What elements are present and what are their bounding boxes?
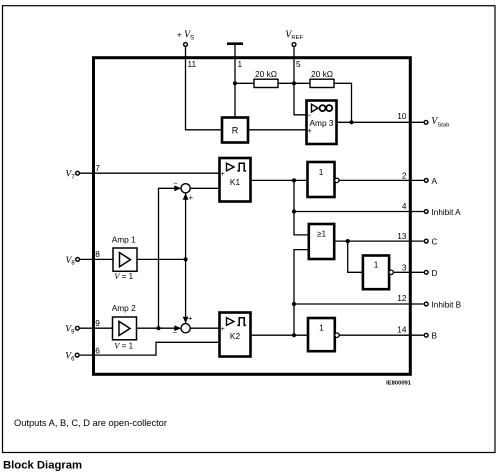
wire +Vs pin 11 to R left bbox=[186, 47, 223, 130]
svg-text:V8: V8 bbox=[66, 256, 76, 267]
terminal D bbox=[424, 270, 428, 274]
wire node C down to gate D input bbox=[348, 241, 363, 272]
junction node Vstab feedback bbox=[349, 120, 353, 124]
Amp 3 header triangle bbox=[312, 104, 319, 112]
junction node C bbox=[346, 239, 350, 243]
wire Vref pin 5 down to Amp3 minus input bbox=[294, 47, 307, 115]
inverter gate D box bbox=[363, 256, 389, 290]
summing node circle 2 bbox=[181, 324, 190, 333]
svg-text:VREF: VREF bbox=[285, 29, 303, 41]
wire R1 to R2 through node 5 bbox=[278, 82, 310, 84]
svg-text:1: 1 bbox=[238, 59, 243, 69]
wire V6 pin 6 to K2 lower input bbox=[80, 342, 220, 355]
wire K1 output bbox=[251, 179, 308, 181]
arrow into summing 2 top bbox=[183, 317, 189, 324]
wire pin 1 down to R top bbox=[234, 44, 236, 118]
svg-text:R: R bbox=[232, 125, 239, 135]
svg-text:9: 9 bbox=[95, 318, 100, 328]
wire V7 pin 7 to K1 input bbox=[80, 172, 220, 174]
svg-text:V = 1: V = 1 bbox=[114, 271, 133, 281]
svg-text:+: + bbox=[189, 193, 194, 202]
wire gate D output to pin 3 bbox=[393, 271, 423, 273]
svg-text:A: A bbox=[432, 177, 438, 186]
svg-text:V6: V6 bbox=[65, 352, 75, 363]
svg-text:11: 11 bbox=[188, 59, 197, 69]
wire inhibit B to pin 12 bbox=[294, 303, 424, 305]
svg-text:+: + bbox=[221, 326, 225, 333]
junction node pin5 bbox=[292, 81, 296, 85]
terminal B bbox=[424, 333, 428, 337]
wire V8 pin 8 to Amp1 input bbox=[80, 258, 113, 260]
junction node inhibit A bbox=[292, 209, 296, 213]
svg-text:D: D bbox=[432, 269, 438, 278]
svg-text:2: 2 bbox=[402, 171, 407, 181]
svg-text:−: − bbox=[173, 328, 178, 337]
summing node circle 1 bbox=[181, 184, 190, 193]
svg-text:1: 1 bbox=[319, 323, 324, 333]
OR gate box bbox=[309, 224, 334, 259]
terminal V9 bbox=[76, 326, 80, 330]
Amp 3 header infinity bbox=[320, 105, 326, 111]
svg-text:4: 4 bbox=[402, 201, 407, 211]
K1 header pulse symbol bbox=[237, 163, 246, 171]
svg-text:20 kΩ: 20 kΩ bbox=[311, 69, 333, 79]
wire summing node 1 left feedback from Amp2 bbox=[159, 188, 181, 328]
svg-text:12: 12 bbox=[397, 293, 407, 303]
IC block outline bbox=[94, 58, 411, 375]
svg-text:8: 8 bbox=[95, 249, 100, 259]
inverter gate A box bbox=[308, 162, 335, 197]
wire gate B output to pin 14 bbox=[339, 334, 424, 336]
svg-text:Inhibit A: Inhibit A bbox=[432, 208, 462, 217]
junction node K1 output bbox=[292, 178, 296, 182]
wire Amp2 output to summing node 2 bbox=[137, 327, 181, 329]
inverter bubble gate D bbox=[389, 270, 393, 274]
buffer amplifier Amp 2 box bbox=[113, 317, 137, 340]
terminal A bbox=[424, 179, 428, 183]
buffer amplifier Amp 1 box bbox=[113, 248, 137, 271]
wire K1 node down to OR gate top input bbox=[294, 180, 309, 235]
wire K2 output bbox=[251, 334, 309, 336]
comparator K1 box bbox=[220, 158, 251, 202]
resistor R1 20k bbox=[254, 79, 278, 87]
wire V9 pin 9 to Amp2 input bbox=[80, 327, 113, 329]
wire OR output to pin 13 bbox=[334, 240, 424, 242]
wire summing node 2 to K2 input bbox=[190, 327, 219, 329]
svg-text:Outputs A, B, C, D are open-co: Outputs A, B, C, D are open-collector bbox=[14, 418, 167, 428]
svg-text:+: + bbox=[221, 171, 225, 178]
inverter gate B box bbox=[308, 318, 335, 351]
resistor R2 20k bbox=[310, 79, 334, 87]
K1 header triangle bbox=[227, 163, 235, 171]
svg-text:IE800091: IE800091 bbox=[386, 381, 412, 387]
svg-text:+: + bbox=[188, 314, 193, 323]
wire Amp1 node vertical to both summing nodes bbox=[185, 194, 187, 323]
svg-text:10: 10 bbox=[397, 111, 407, 121]
terminal inhibit B bbox=[424, 302, 428, 306]
svg-text:5: 5 bbox=[296, 59, 301, 69]
junction node K2 output bbox=[292, 333, 296, 337]
svg-text:V9: V9 bbox=[65, 325, 75, 336]
svg-text:≥1: ≥1 bbox=[317, 228, 327, 238]
svg-text:−: − bbox=[307, 110, 312, 119]
svg-text:K1: K1 bbox=[230, 177, 241, 187]
svg-text:1: 1 bbox=[319, 167, 324, 177]
wire inhibit A to pin 4 bbox=[294, 211, 424, 213]
terminal +Vs bbox=[184, 43, 188, 47]
junction node Amp2 output bbox=[156, 326, 160, 330]
wire K2 node up to OR gate bottom input bbox=[294, 250, 309, 336]
K2 header triangle bbox=[227, 318, 235, 326]
Amp 2 triangle bbox=[119, 321, 130, 335]
junction node inhibit B bbox=[292, 302, 296, 306]
K2 header pulse symbol bbox=[237, 318, 246, 326]
wire R2 to Amp3 output node bbox=[334, 83, 352, 122]
arrow into summing 1 left bbox=[174, 185, 181, 191]
terminal Vstab bbox=[424, 120, 428, 124]
terminal V8 bbox=[76, 258, 80, 262]
terminal inhibit A bbox=[424, 210, 428, 214]
wire R right to Amp3 plus input bbox=[248, 129, 307, 131]
Amp 1 triangle bbox=[120, 253, 131, 267]
svg-text:13: 13 bbox=[397, 231, 407, 241]
terminal C bbox=[424, 239, 428, 243]
wire node1 to resistor R1 bbox=[235, 82, 254, 84]
junction node Amp1 output bbox=[184, 257, 188, 261]
svg-text:1: 1 bbox=[374, 260, 379, 270]
wire summing node 1 to K1 lower input bbox=[190, 187, 219, 189]
svg-text:Block Diagram: Block Diagram bbox=[3, 460, 82, 472]
arrow into summing 2 left bbox=[174, 325, 181, 331]
svg-text:Amp 3: Amp 3 bbox=[310, 118, 334, 128]
svg-text:3: 3 bbox=[402, 262, 407, 272]
inverter bubble gate B bbox=[335, 333, 339, 337]
comparator K2 box bbox=[220, 313, 251, 357]
resistor block R bbox=[222, 118, 248, 143]
op-amp Amp 3 box bbox=[307, 101, 337, 145]
terminal V6 bbox=[75, 353, 79, 357]
svg-text:14: 14 bbox=[397, 324, 407, 334]
svg-text:+ VS: + VS bbox=[177, 30, 194, 42]
terminal Vref bbox=[292, 43, 296, 47]
arrow into summing 1 bottom bbox=[183, 193, 189, 200]
wire gate A output to pin 2 bbox=[339, 179, 424, 181]
svg-text:V7: V7 bbox=[66, 170, 76, 181]
wire Amp1 output bbox=[137, 258, 186, 260]
wire Amp3 output to pin 10 bbox=[337, 121, 424, 123]
svg-text:C: C bbox=[432, 238, 438, 247]
svg-text:K2: K2 bbox=[230, 331, 241, 341]
svg-text:20 kΩ: 20 kΩ bbox=[255, 69, 277, 79]
svg-text:7: 7 bbox=[95, 163, 100, 173]
terminal bar pin 1 bbox=[227, 42, 243, 45]
svg-text:B: B bbox=[432, 332, 438, 341]
svg-text:VStab: VStab bbox=[431, 116, 449, 129]
junction node pin1/R bbox=[233, 81, 237, 85]
terminal V7 bbox=[76, 171, 80, 175]
svg-text:V = 1: V = 1 bbox=[114, 340, 133, 350]
svg-text:6: 6 bbox=[95, 345, 100, 355]
svg-text:Inhibit B: Inhibit B bbox=[432, 301, 462, 310]
svg-text:−: − bbox=[173, 179, 178, 188]
svg-text:Amp 2: Amp 2 bbox=[112, 303, 136, 313]
svg-text:Amp 1: Amp 1 bbox=[112, 235, 136, 245]
svg-text:+: + bbox=[307, 126, 312, 135]
inverter bubble gate A bbox=[335, 178, 339, 182]
